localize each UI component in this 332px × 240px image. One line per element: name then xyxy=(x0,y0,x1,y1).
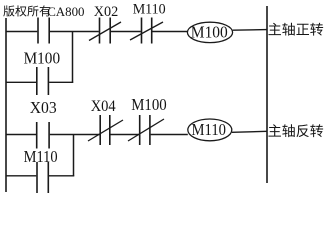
wire branch2 vertical join xyxy=(73,135,75,177)
slash of NC contact M110 xyxy=(130,22,163,40)
wire branch1 left xyxy=(6,81,36,83)
wire rung1 seg4 xyxy=(152,31,187,33)
svg-text:M100: M100 xyxy=(191,22,228,41)
coil M110 xyxy=(188,119,232,141)
svg-text:X03: X03 xyxy=(30,98,57,117)
contact X02 (NC) xyxy=(100,18,111,44)
svg-text:X04: X04 xyxy=(91,98,116,115)
contact (NO) rung1 input xyxy=(38,18,49,44)
wire rung2 seg2 xyxy=(50,134,100,136)
svg-text:M110: M110 xyxy=(24,147,58,166)
contact M100 (NC) interlock xyxy=(140,115,150,145)
wire rung2 seg3 xyxy=(111,134,140,136)
wire branch2 left xyxy=(6,175,36,177)
wire rung2 seg1 xyxy=(6,134,36,136)
wire rung2 seg4 xyxy=(151,134,188,136)
right power rail xyxy=(266,6,268,183)
wire rung1 seg1 xyxy=(6,31,37,33)
left power rail xyxy=(5,18,7,192)
svg-text:M110: M110 xyxy=(133,1,166,17)
text watermark 版权所有 xyxy=(3,5,50,16)
text output comment 主轴正转 xyxy=(268,23,323,36)
slash of NC contact M100 xyxy=(128,119,164,141)
contact M100 (NO) seal-in xyxy=(37,67,49,95)
svg-text:X02: X02 xyxy=(94,4,119,20)
svg-text:M100: M100 xyxy=(131,95,167,114)
coil M100 xyxy=(187,22,232,42)
wire rung2 to right rail xyxy=(232,131,267,132)
wire rung1 to right rail xyxy=(233,29,267,32)
wire branch2 right xyxy=(49,175,74,177)
contact M110 (NC) xyxy=(142,18,152,44)
slash of NC contact X04 xyxy=(88,120,123,141)
wire rung1 seg3 xyxy=(111,31,141,33)
wire rung1 seg2 xyxy=(50,31,99,33)
wire branch1 right xyxy=(49,81,73,83)
svg-text:M110: M110 xyxy=(192,120,227,139)
svg-text:CA800: CA800 xyxy=(47,4,84,19)
text output comment 主轴反转 xyxy=(268,124,323,137)
svg-text:M100: M100 xyxy=(24,49,61,68)
slash of NC contact X02 xyxy=(89,22,121,41)
contact X04 (NC) xyxy=(100,115,110,145)
wire branch1 vertical join xyxy=(72,32,74,83)
contact M110 (NO) seal-in xyxy=(37,162,48,193)
contact X03 (NO) xyxy=(37,122,49,149)
